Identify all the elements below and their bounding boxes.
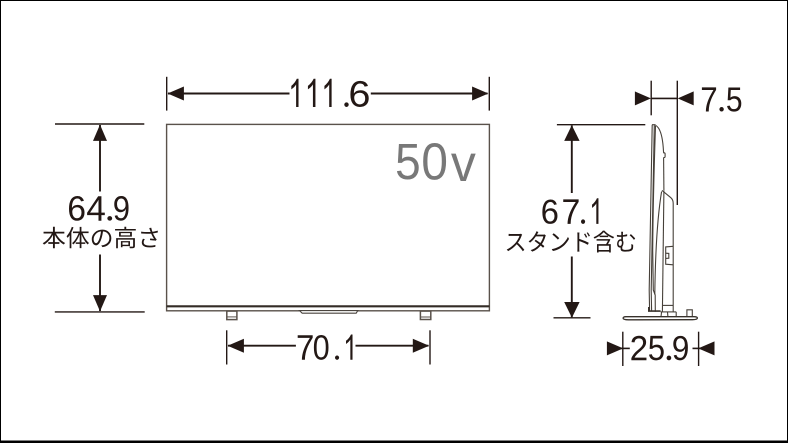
- clip bump: [666, 253, 669, 258]
- stand base plate: [623, 317, 697, 320]
- rear box left edge: [662, 190, 664, 312]
- panel back curve: [656, 125, 664, 153]
- dim stand depth arrows: [607, 341, 623, 355]
- tv center chin bar: [300, 311, 358, 314]
- clip outer: [666, 246, 674, 264]
- dark bottom bracket: [648, 307, 661, 312]
- neck right: [667, 312, 669, 317]
- dim depth 7.5 : ticks: [651, 81, 677, 205]
- dim total height 67.1 : ticks: [554, 125, 646, 318]
- dim width 111.6 : ticks: [167, 77, 490, 111]
- box bottom edge: [661, 311, 677, 313]
- dim height arrows: [93, 125, 107, 141]
- rear foot pad: [687, 310, 692, 317]
- panel front inner edge: [651, 125, 654, 310]
- dim stand depth 25.9 : ticks: [618, 332, 701, 366]
- back line below bump: [663, 158, 665, 191]
- back bump: [663, 153, 665, 158]
- dim stand width 70.1 : ticks: [227, 330, 430, 364]
- dim total height arrows: [564, 125, 579, 141]
- panel front outer edge: [649, 125, 652, 311]
- dim stand arrows: [228, 339, 244, 353]
- neck left: [660, 312, 663, 317]
- dim label 67.1: [542, 198, 598, 224]
- tv screen bottom dark line: [167, 305, 490, 307]
- rear box right edge: [672, 204, 674, 312]
- label 50v: [397, 143, 476, 181]
- dim depth arrows: [635, 91, 651, 105]
- jp label 本体の高さ: [43, 227, 158, 249]
- tv right foot: [420, 311, 430, 319]
- dim height 64.9 : ticks: [55, 124, 145, 312]
- tv front rectangle: [167, 124, 490, 310]
- rear cover swoosh: [655, 192, 662, 295]
- box seam line: [663, 304, 674, 306]
- dim width arrows: [168, 87, 184, 101]
- dim label 64.9: [69, 196, 129, 221]
- tv side profile: [649, 125, 692, 317]
- jp label スタンド含む: [507, 231, 635, 253]
- dim label 25.9: [631, 336, 688, 361]
- tv left foot: [227, 311, 237, 320]
- panel screen back line: [653, 126, 656, 312]
- dim label 7.5: [702, 87, 741, 111]
- rear box top slant: [662, 190, 673, 203]
- panel top cap: [652, 124, 656, 126]
- dim label 111.6: [291, 79, 368, 107]
- dim label 70.1: [298, 334, 353, 359]
- stand rear edge: [675, 312, 677, 317]
